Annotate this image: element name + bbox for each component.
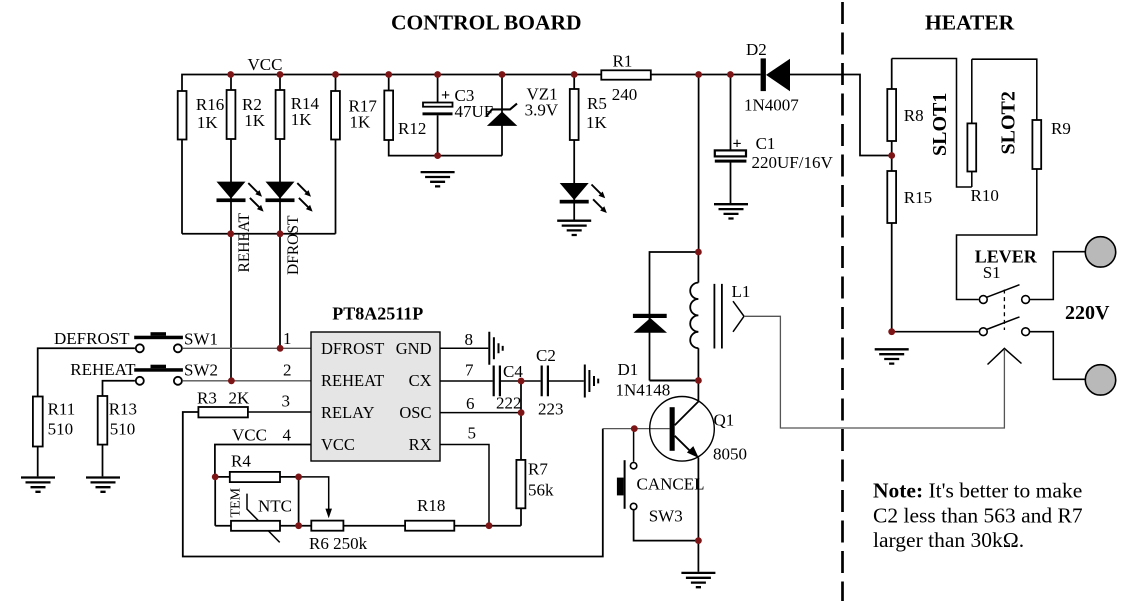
svg-text:220UF/16V: 220UF/16V: [752, 153, 834, 172]
svg-text:C2: C2: [536, 346, 556, 365]
svg-text:SW3: SW3: [649, 507, 683, 526]
svg-text:R16: R16: [196, 95, 224, 114]
svg-text:CANCEL: CANCEL: [637, 475, 705, 494]
svg-text:+: +: [441, 87, 450, 104]
svg-text:HEATER: HEATER: [925, 11, 1015, 35]
svg-text:NTC: NTC: [258, 497, 292, 516]
svg-text:R6 250k: R6 250k: [309, 534, 368, 553]
svg-text:8: 8: [465, 330, 474, 349]
svg-text:R10: R10: [971, 186, 999, 205]
svg-text:47UF: 47UF: [455, 102, 494, 121]
svg-text:CONTROL BOARD: CONTROL BOARD: [391, 11, 582, 35]
svg-text:VCC: VCC: [321, 435, 355, 454]
svg-text:Note: It's better to make: Note: It's better to make: [873, 479, 1082, 503]
svg-text:7: 7: [465, 361, 474, 380]
svg-text:R5: R5: [587, 94, 607, 113]
svg-text:TEM: TEM: [229, 487, 244, 517]
svg-text:VCC: VCC: [232, 426, 267, 445]
svg-text:D1: D1: [618, 360, 639, 379]
svg-text:510: 510: [48, 420, 74, 439]
svg-text:L1: L1: [732, 282, 751, 301]
svg-text:DFROST: DFROST: [285, 215, 302, 275]
svg-text:C1: C1: [756, 134, 776, 153]
svg-text:REHEAT: REHEAT: [321, 371, 384, 390]
svg-text:REHEAT: REHEAT: [236, 213, 253, 273]
svg-text:DEFROST: DEFROST: [54, 329, 130, 348]
svg-text:SW2: SW2: [184, 361, 218, 380]
svg-text:R4: R4: [231, 452, 251, 471]
svg-text:D2: D2: [746, 40, 767, 59]
svg-text:1N4007: 1N4007: [744, 96, 799, 115]
svg-text:1K: 1K: [197, 113, 219, 132]
svg-text:2K: 2K: [229, 389, 251, 408]
svg-text:1K: 1K: [350, 113, 372, 132]
svg-text:R8: R8: [904, 106, 924, 125]
svg-text:C4: C4: [503, 362, 523, 381]
svg-text:OSC: OSC: [399, 403, 431, 422]
svg-text:6: 6: [466, 394, 475, 413]
svg-text:1K: 1K: [244, 111, 265, 130]
svg-text:3.9V: 3.9V: [525, 101, 559, 120]
svg-text:510: 510: [110, 420, 136, 439]
svg-text:R7: R7: [528, 460, 548, 479]
svg-text:GND: GND: [396, 339, 432, 358]
svg-text:R9: R9: [1051, 119, 1071, 138]
svg-text:3: 3: [282, 392, 291, 411]
svg-text:R18: R18: [417, 496, 445, 515]
svg-text:2: 2: [283, 361, 292, 380]
svg-text:222: 222: [496, 394, 522, 413]
svg-text:240: 240: [612, 85, 638, 104]
svg-text:4: 4: [283, 426, 292, 445]
svg-text:REHEAT: REHEAT: [70, 360, 136, 379]
svg-text:VCC: VCC: [248, 55, 283, 74]
svg-text:larger than 30kΩ.: larger than 30kΩ.: [873, 528, 1024, 552]
svg-text:SLOT1: SLOT1: [929, 93, 951, 156]
svg-text:CX: CX: [409, 371, 432, 390]
svg-text:5: 5: [468, 424, 477, 443]
svg-text:R1: R1: [613, 52, 633, 71]
svg-text:R15: R15: [904, 188, 932, 207]
svg-text:8050: 8050: [713, 445, 747, 464]
svg-text:PT8A2511P: PT8A2511P: [332, 304, 423, 324]
svg-text:Q1: Q1: [714, 411, 735, 430]
svg-text:R3: R3: [197, 389, 217, 408]
svg-text:RX: RX: [409, 435, 432, 454]
svg-text:1K: 1K: [586, 113, 608, 132]
svg-text:223: 223: [538, 400, 564, 419]
svg-text:DFROST: DFROST: [321, 339, 384, 358]
svg-text:+: +: [733, 136, 742, 153]
svg-text:RELAY: RELAY: [321, 403, 375, 422]
svg-text:SLOT2: SLOT2: [998, 91, 1020, 154]
svg-text:SW1: SW1: [184, 330, 218, 349]
svg-text:1: 1: [283, 329, 292, 348]
svg-text:R12: R12: [398, 119, 426, 138]
svg-text:R13: R13: [109, 400, 137, 419]
svg-text:S1: S1: [983, 263, 1001, 282]
svg-text:C2 less than 563 and R7: C2 less than 563 and R7: [873, 503, 1083, 527]
svg-text:1N4148: 1N4148: [616, 381, 671, 400]
svg-text:56k: 56k: [528, 481, 554, 500]
svg-text:R11: R11: [48, 400, 76, 419]
svg-text:220V: 220V: [1065, 302, 1110, 324]
svg-text:1K: 1K: [291, 110, 313, 129]
